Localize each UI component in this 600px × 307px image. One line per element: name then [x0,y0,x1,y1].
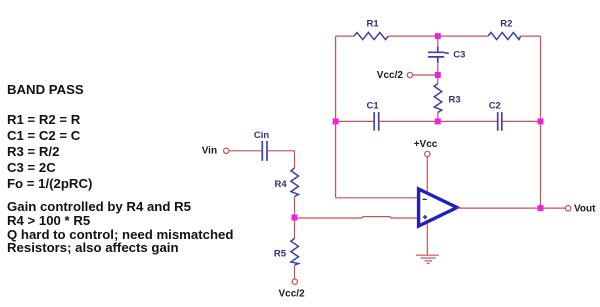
wire R4 bottom lead to node [294,197,296,218]
wire +Vcc to op-amp power pin [426,157,428,194]
wire op-amp output to Vout [457,207,565,209]
note line R1 = R2 = R [7,113,80,126]
svg-text:R2: R2 [500,18,512,29]
wire non-inverting input (node to op-amp, with jog) [295,217,418,218]
wire Vcc/2 stub to node [413,74,438,76]
title BAND PASS [7,83,84,96]
wire Cin to corner and down to R4 [267,151,294,168]
wire op-amp to ground [426,222,428,255]
op-amp U1 [419,189,457,226]
note line C3 = 2C [7,161,56,174]
capacitor C3 [428,47,449,63]
node middle right [538,118,544,124]
svg-text:Cin: Cin [254,130,270,141]
wire top-middle segment (R1 to R2 through node) [388,35,488,37]
note line Resistors; also affects gain [7,241,179,254]
note line Fo = 1/(2pRC) [7,177,92,190]
wire R3 top lead [437,75,439,84]
svg-text:C1: C1 [367,100,380,111]
node middle left [333,118,339,124]
svg-text:R5: R5 [274,249,287,260]
wire middle rail left (left rail to C1) [336,120,374,122]
svg-text:Vcc/2: Vcc/2 [279,289,306,300]
wire Vin to Cin [229,150,262,152]
wire C3 top lead [437,36,439,48]
capacitor C2 [498,112,502,131]
svg-text:Vin: Vin [202,146,217,157]
resistor R1 [354,33,388,40]
resistor R5 [291,238,299,265]
terminal Vin [224,148,229,153]
wire middle rail right (C2 to right rail) [502,120,540,122]
capacitor C1 [374,112,379,131]
wire R5 bottom lead [294,265,296,279]
pin plus (non-inverting input mark) [423,215,427,219]
resistor R2 [488,33,521,40]
svg-text:R4: R4 [275,179,288,190]
note line C1 = C2 = C [7,129,80,142]
pin minus (inverting input mark) [423,198,427,200]
node below C3 [435,72,441,78]
node R4-R5 junction [292,215,298,221]
svg-text:R1: R1 [367,18,380,29]
resistor R4 [291,168,299,197]
svg-text:C2: C2 [489,100,501,111]
node output [538,205,544,211]
ground [416,255,439,263]
terminal Vout [566,206,571,211]
note line R4 > 100 * R5 [7,214,90,227]
wire top-left segment (top rail to R1) [336,35,354,37]
svg-text:C3: C3 [453,50,465,61]
note line Gain controlled by R4 and R5 [7,200,191,213]
wire left rail vertical [335,36,337,198]
node middle center [435,118,441,124]
note line Q hard to control; need mismatched [7,228,233,241]
wire right rail vertical [540,36,542,208]
terminal Vcc/2 (upper) [407,72,412,77]
node top center [435,33,441,39]
svg-text:Vout: Vout [574,204,596,215]
svg-text:Vcc/2: Vcc/2 [377,70,404,81]
wire inverting input (left rail corner to op-amp) [336,197,417,199]
wire top-right segment (R2 to right rail) [521,35,541,37]
terminal +Vcc [425,151,430,156]
resistor R3 [434,84,442,113]
note line R3 = R/2 [7,145,59,158]
svg-text:+Vcc: +Vcc [414,139,438,150]
wire middle rail center (C1 to C2 through node) [379,120,497,122]
wire R3 bottom lead [437,113,439,122]
wire C3 bottom lead to node [437,62,439,75]
svg-text:R3: R3 [449,95,461,106]
capacitor Cin [262,141,267,161]
terminal Vcc/2 (lower) [292,279,297,284]
wire R5 top lead [294,218,296,239]
